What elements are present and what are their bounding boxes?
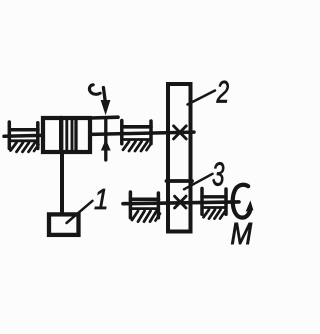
node X on shaft II (gear 3 fixed joint) [175,196,186,208]
svg-text:3: 3 [212,155,225,192]
node X on shaft I (gear 2 fixed joint) [174,126,187,139]
svg-text:1: 1 [94,183,109,216]
label 2 (gear 2) [216,74,229,110]
wire upper shaft I left segment [4,134,42,138]
divider between gear 2 and gear 3 [167,179,193,183]
bearing C (mid support on shaft I) [122,121,151,152]
wire top rail tick right of box [92,115,119,119]
leader line for 1 [67,201,93,223]
label 3 (gear 3) [212,155,225,192]
leader line for 2 [188,91,216,105]
gear block 2+3 outline [168,84,191,232]
label 1 (element 1) [94,183,109,216]
svg-text:M: M [231,216,253,250]
hook c (curved tail of adjusting arrow) [89,85,100,94]
bearing A (upper-left support, walls + cap + hatch) [9,122,38,152]
bearing B2 (lower-right support) [202,189,226,219]
wire connector from box down to element 1 [60,152,64,213]
svg-text:2: 2 [216,74,229,110]
element 1 (square block) [49,214,79,235]
wire upper shaft I right segment [92,132,195,134]
motor rotation symbol (circular arrow) [233,185,254,218]
box element (disc stack / variator on shaft I) [43,118,90,152]
label M (motor) [231,216,253,250]
wire lower shaft II [123,202,239,204]
arrow lower (up arrow onto shaft, stem crosses axis) [101,120,111,161]
bearing B1 (lower-left support) [130,192,160,222]
arrow upper (down arrow onto rail) [101,88,111,116]
leader line for 3 [184,174,213,190]
